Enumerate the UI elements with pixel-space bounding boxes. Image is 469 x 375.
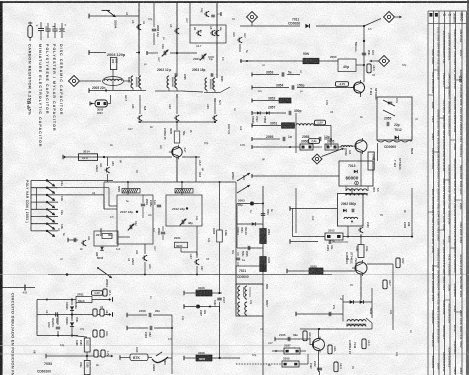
resistor 140e right of 7013 bbox=[368, 152, 374, 170]
wire row2 y314.5 bbox=[37, 314, 110, 316]
switch contacts in 7012 bbox=[383, 100, 395, 106]
legend symbol polyester cap bbox=[54, 23, 56, 29]
resistor 3064 vertical dark bbox=[260, 257, 267, 272]
test point diamond D1 bbox=[247, 12, 258, 23]
resistor 3185 vertical bbox=[84, 361, 90, 375]
wire bus y182 bbox=[104, 181, 236, 183]
wire y271 row 3183 bbox=[286, 269, 288, 273]
resistor 3102 bbox=[325, 233, 343, 240]
top page border line bbox=[0, 1, 469, 3]
parts table grid bbox=[427, 11, 429, 375]
wire y208 left bbox=[289, 206, 291, 210]
fet A5 x139 bbox=[136, 26, 138, 28]
vertical x230 right of osc bbox=[235, 182, 237, 310]
test point diamond D4 bbox=[312, 154, 322, 164]
transistor T111 circle bbox=[354, 82, 365, 93]
vertical x172 drop bbox=[171, 315, 173, 374]
diodes 7004 FM bbox=[237, 223, 263, 225]
wire box1 bottom bbox=[117, 243, 153, 245]
legend symbol carbon resistor bbox=[28, 26, 32, 38]
wire left stub y287 bbox=[0, 287, 35, 289]
wire long y157 bbox=[63, 156, 172, 158]
resistor 3009 small bbox=[102, 234, 112, 239]
parts table section separators bbox=[428, 94, 434, 96]
antenna lead 20504 bbox=[88, 14, 90, 19]
osc frame box bbox=[190, 25, 226, 43]
IC box 7013 bbox=[339, 161, 373, 186]
capacitor 1812 row3 bbox=[56, 326, 60, 328]
trimmer 2013 bbox=[181, 220, 183, 224]
resistor 3061 vertical dark bbox=[260, 229, 267, 244]
callout pair row2 bbox=[93, 309, 97, 316]
fet A5 x217 bbox=[214, 32, 216, 34]
wire T113 to right bbox=[367, 263, 393, 265]
resistor 3184 vertical bbox=[84, 338, 90, 352]
transistor T113 circle bbox=[355, 262, 367, 274]
vertical x238 bbox=[236, 204, 238, 249]
callout bottom 336 bbox=[334, 362, 338, 372]
coil T2 bbox=[167, 76, 169, 88]
wire y52 left bbox=[88, 50, 90, 55]
switch 20504 low bbox=[98, 268, 112, 278]
wire y328 with cap bbox=[126, 326, 128, 330]
wire y188 left stub bbox=[103, 182, 105, 209]
vertical x331 bbox=[330, 126, 332, 148]
capacitor mains bbox=[296, 313, 343, 315]
trimmer C1c bbox=[129, 225, 131, 229]
wire 2106 39e bbox=[274, 337, 276, 341]
wire y329 long bbox=[300, 328, 372, 330]
left page edge black bar bbox=[0, 1, 3, 375]
resistor 3108b bbox=[236, 363, 282, 365]
link diode chain to 3184 bbox=[71, 332, 73, 336]
wire row4 y356 bbox=[46, 355, 112, 357]
resistor 3004 vertical bbox=[110, 58, 116, 70]
diode 7061 bbox=[71, 300, 73, 306]
wire to diamond D2 bbox=[364, 19, 381, 27]
tuner vertical x217 bbox=[216, 3, 218, 78]
wire y236 long bbox=[293, 236, 326, 238]
transformer core hatch 1 bbox=[122, 189, 140, 194]
test point diamond ant bbox=[69, 76, 80, 87]
switch contacts mid bbox=[237, 173, 250, 181]
resistor 3187 bbox=[272, 350, 284, 352]
box 7012 CD0000 bbox=[377, 97, 412, 140]
capacitor 2064 1e bbox=[261, 213, 265, 215]
switch bank feeder wires bbox=[58, 180, 113, 182]
transistor sym A13 x177 bbox=[176, 95, 178, 114]
capacitor 2011 3e bbox=[161, 231, 165, 233]
scan crease line upper bbox=[0, 274, 469, 276]
legend symbol disc ceramic cap bbox=[61, 23, 63, 29]
osc tuned box 2 bbox=[166, 195, 202, 226]
vertical x364 IF bbox=[363, 26, 365, 82]
callout pair row4 bbox=[94, 350, 98, 357]
tuner vertical x190 bbox=[189, 3, 191, 25]
test point diamond D2 bbox=[384, 12, 395, 23]
capacitor 2106 20n bbox=[126, 313, 128, 317]
capacitor x219 low bbox=[217, 297, 221, 299]
voltage callout 1.2V bbox=[315, 120, 326, 125]
coil T1 bbox=[131, 76, 133, 88]
wire right from T101 bbox=[196, 121, 215, 123]
transistor sym A11 x140 bbox=[139, 95, 141, 114]
callout pair row3 bbox=[93, 330, 97, 337]
wire x263 vert bbox=[262, 186, 264, 266]
scan crease line lower bbox=[0, 353, 469, 355]
diode in 7012 bbox=[395, 136, 399, 140]
legend symbol polystyrene cap bbox=[47, 23, 49, 29]
callout 1.3V pair bbox=[92, 291, 103, 296]
wire row1 y299.5 bbox=[37, 299, 110, 301]
legend symbol miniature electrolytic bbox=[40, 22, 42, 29]
trimmer row bbox=[146, 51, 148, 55]
transformer mains 5943 bbox=[347, 320, 366, 322]
parts table headers bbox=[429, 13, 432, 17]
resistor 3014 bbox=[79, 154, 98, 161]
wire to diamond D3 bbox=[370, 60, 372, 63]
wire row3 y335.5 bbox=[37, 335, 78, 337]
wire y310 right bbox=[219, 307, 221, 359]
tuner vertical x177 bbox=[176, 3, 178, 53]
diode 7062 bbox=[71, 315, 73, 322]
wire x222 below bus bbox=[219, 275, 221, 294]
capacitor 2791 row2 bbox=[55, 312, 57, 316]
transistor lying bottom bbox=[152, 357, 168, 363]
transistor T112 circle bbox=[355, 140, 367, 152]
callout pair near T114 bbox=[303, 331, 307, 341]
vertical x37 left column bbox=[36, 300, 38, 336]
transistor T101 circle bbox=[172, 147, 182, 157]
switch bank 2051 poly var con bbox=[31, 180, 58, 182]
wire osc1 down bbox=[144, 248, 146, 254]
coil T3 bbox=[205, 78, 207, 90]
resistor 3005 vertical bbox=[176, 122, 178, 130]
wire vert x360 below T112 bbox=[360, 152, 362, 186]
fet A15 edge bbox=[237, 39, 239, 41]
transistor T114 big bbox=[313, 339, 325, 351]
osc tuned box 1 bbox=[117, 195, 153, 244]
bus wire y274 dark part bbox=[48, 274, 332, 276]
wire vert x196 drop bbox=[195, 157, 197, 182]
box 2062 detector bbox=[338, 194, 364, 227]
transformer 7021 coils bbox=[238, 286, 240, 299]
resistor 3081 bbox=[76, 297, 92, 303]
fet cluster top right bbox=[204, 13, 206, 15]
callout 4.5V mid bbox=[396, 258, 400, 268]
capacitor 2065 vert bbox=[237, 247, 263, 249]
label 1e cap bbox=[236, 257, 240, 259]
callout A6-3 bbox=[367, 64, 371, 73]
callout label x385 bbox=[383, 280, 387, 289]
transistor sym mid x361 bbox=[358, 229, 360, 231]
wire vert x103 drop bbox=[107, 157, 109, 166]
wire y176 bbox=[252, 175, 339, 177]
transistor sym A15 x215 bbox=[214, 99, 216, 114]
capacitor bottom 319 bbox=[317, 367, 322, 369]
right page edge line bbox=[467, 0, 469, 375]
coil bottom link bbox=[155, 90, 166, 92]
diode pair rectifier bbox=[343, 301, 372, 303]
callout BTK transistor bbox=[119, 355, 121, 359]
callout right of T114 bbox=[362, 339, 366, 349]
resistor 3106 bbox=[184, 292, 196, 294]
cap + transistor A11 @70,240 bbox=[67, 238, 69, 242]
transformer core hatch 2 bbox=[175, 189, 193, 194]
vertical x292 link bbox=[292, 209, 294, 237]
test point diamond D3 bbox=[379, 56, 390, 67]
tuner vertical x139 bbox=[138, 3, 140, 53]
capacitor 2016 vertical bbox=[141, 203, 145, 205]
capacitor row y306 bbox=[184, 306, 210, 308]
resistor 3109 bbox=[184, 357, 196, 359]
wire y241 row bbox=[289, 239, 291, 243]
tuner vertical x154 cap 2066 bbox=[153, 3, 155, 27]
fet A5 x177 bbox=[174, 30, 176, 32]
transformer under 7013 bbox=[346, 189, 367, 191]
rf choke bbox=[103, 77, 124, 86]
resistor 3101 vertical bbox=[360, 234, 362, 244]
box 2019 bbox=[94, 231, 118, 246]
scan noise texture bbox=[0, 0, 1, 1]
wire vert x296 down bbox=[295, 113, 297, 153]
voltage callout -3.2V bbox=[336, 82, 349, 87]
transformer 7021 box bbox=[236, 266, 263, 284]
wire osc2 down bbox=[180, 248, 182, 252]
vertical 3103 column bbox=[219, 182, 221, 275]
wire 2005 22n bbox=[88, 88, 90, 93]
vertical x412 up bbox=[411, 188, 413, 237]
wire bus y122 bbox=[138, 121, 215, 123]
vertical x296 mid bbox=[295, 188, 297, 233]
resistor cluster 3008 bbox=[89, 102, 91, 106]
wire IF top y26 bbox=[240, 25, 300, 27]
wire from box 2019 bbox=[118, 236, 130, 238]
box 40p bbox=[338, 59, 356, 72]
